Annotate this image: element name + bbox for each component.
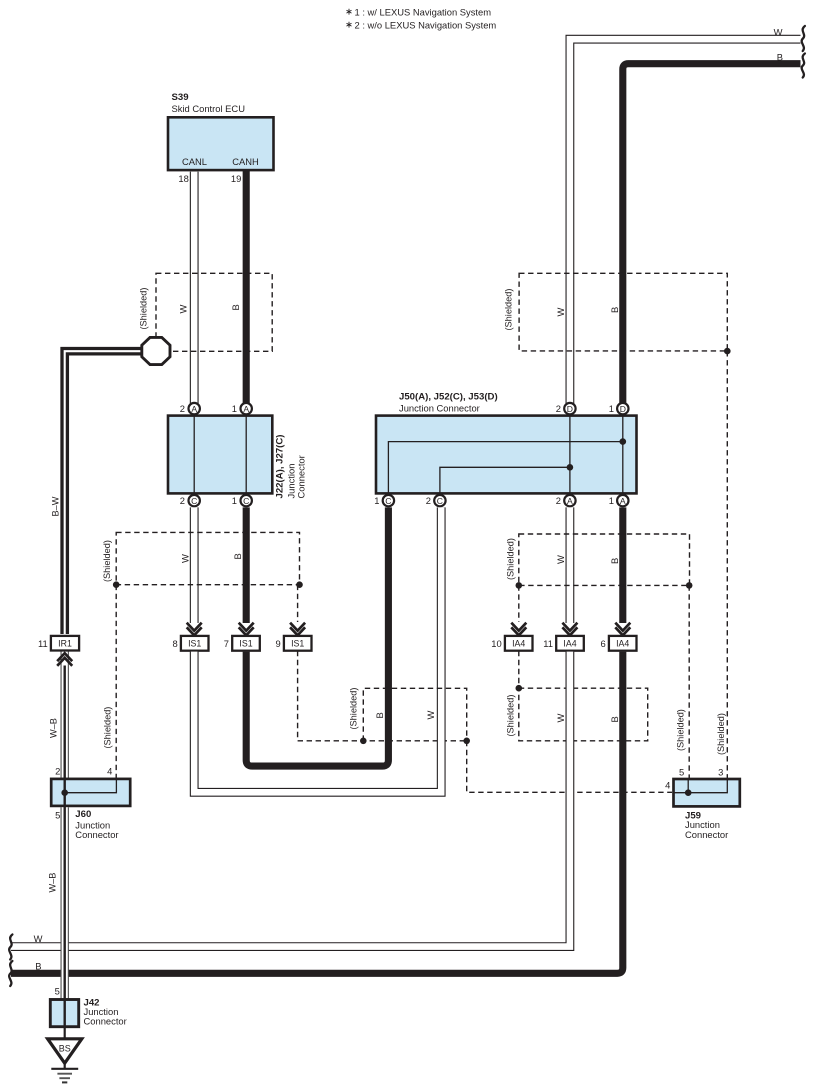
svg-text:4: 4 (665, 780, 670, 791)
label (Shielded) bottom-middle (348, 688, 358, 730)
svg-text:J60: J60 (75, 809, 91, 820)
svg-text:Connector: Connector (75, 829, 118, 840)
J42 pin 5 label (55, 986, 60, 997)
svg-text:1: 1 (374, 495, 379, 506)
label B top-left shield (230, 304, 241, 310)
ground triangle BS (48, 1039, 82, 1063)
J50 pin 2D (556, 403, 576, 414)
svg-text:2: 2 (426, 495, 431, 506)
J59 pin 5 label (679, 767, 684, 778)
svg-text:2: 2 (180, 403, 185, 414)
svg-text:(Shielded): (Shielded) (506, 695, 516, 737)
connector IS1 pin8 (172, 636, 208, 651)
svg-text:Connector: Connector (685, 829, 728, 840)
svg-text:5: 5 (55, 986, 60, 997)
label S39 (172, 92, 189, 103)
svg-text:3: 3 (718, 767, 723, 778)
junction dot left-middle left (113, 581, 120, 588)
svg-text:Skid Control ECU: Skid Control ECU (172, 103, 246, 114)
J59 internal wires (674, 779, 728, 796)
J42 internal wire (63, 1000, 65, 1027)
shield wire to IS1-9 (297, 585, 299, 622)
label W bottom-right shield (555, 714, 566, 723)
break symbol B right (802, 54, 805, 78)
svg-text:2: 2 (556, 403, 561, 414)
label (Shielded) J59 pin3 drop (716, 713, 726, 755)
svg-text:2: 2 (180, 495, 185, 506)
pin 18 label (178, 173, 188, 184)
svg-text:B–W: B–W (51, 496, 61, 516)
svg-text:IA4: IA4 (512, 639, 525, 649)
label W bottom-middle shield (425, 711, 436, 720)
label B top-right shield (609, 307, 620, 313)
svg-text:B: B (232, 553, 243, 559)
arrows into IA4-10 (511, 623, 526, 636)
wire W J50 2A to IA4-11 (566, 507, 575, 623)
svg-text:1 : w/ LEXUS Navigation System: 1 : w/ LEXUS Navigation System (355, 7, 492, 18)
svg-text:W: W (555, 555, 566, 564)
svg-text:W: W (178, 305, 189, 314)
arrows into IS1-8 (187, 623, 202, 636)
label B top-right (777, 52, 783, 63)
svg-text:1: 1 (609, 403, 614, 414)
svg-text:J50(A), J52(C), J53(D): J50(A), J52(C), J53(D) (399, 392, 498, 403)
svg-text:W: W (425, 711, 436, 720)
svg-text:B: B (374, 712, 385, 718)
svg-text:B: B (609, 716, 620, 722)
svg-text:B: B (609, 558, 620, 564)
break symbol B left (9, 961, 12, 986)
svg-text:B: B (609, 307, 620, 313)
connector IA4 pin11 (543, 636, 584, 651)
J60 internal wire to pin4 (61, 779, 116, 796)
svg-text:D: D (620, 404, 626, 414)
svg-text:IS1: IS1 (291, 639, 304, 649)
J50 internal wire 2C branch (440, 464, 573, 493)
connector IA4 pin6 (600, 636, 636, 651)
arrows into IA4-11 (562, 623, 577, 636)
junction connector J22 box (168, 416, 272, 494)
J50 pin 1D (609, 403, 629, 414)
svg-text:1: 1 (609, 495, 614, 506)
wire B top-right run (623, 64, 801, 410)
svg-text:IS1: IS1 (188, 639, 201, 649)
svg-text:W–B: W–B (48, 873, 58, 893)
J50 internal wire 1C branch (388, 438, 626, 493)
svg-text:2: 2 (55, 766, 60, 777)
ground bar 4 (62, 1081, 67, 1083)
wire B IA4-6 to left edge (11, 652, 623, 974)
label J22 Junction (285, 464, 296, 499)
label W-B lower (48, 873, 58, 893)
label J50 Junction Connector (399, 403, 480, 414)
label W bottom (34, 933, 43, 944)
svg-text:5: 5 (55, 810, 60, 821)
label J60 Connector (75, 829, 118, 840)
label J22 Connector (296, 455, 307, 498)
ground bar 2 (57, 1073, 72, 1075)
svg-text:2 : w/o LEXUS Navigation Syste: 2 : w/o LEXUS Navigation System (355, 20, 497, 31)
svg-text:11: 11 (543, 638, 553, 649)
label W left-middle shield (180, 554, 191, 563)
label J60 (75, 809, 91, 820)
svg-text:W: W (180, 554, 191, 563)
svg-text:Connector: Connector (296, 455, 307, 498)
junction dot bottom-right shield (516, 685, 523, 692)
svg-text:(Shielded): (Shielded) (102, 540, 112, 582)
J59 pin 3 label (718, 767, 723, 778)
svg-text:Connector: Connector (84, 1016, 127, 1027)
label B bottom-middle shield (374, 712, 385, 718)
connector IR1 (38, 636, 79, 651)
svg-text:(Shielded): (Shielded) (504, 289, 514, 331)
J22 internal wire left (193, 416, 195, 494)
shield wire IS1-9 to J59 pin4 (298, 651, 672, 793)
wire W CANL to J22 (190, 172, 199, 404)
label (Shielded) left-middle (102, 540, 112, 582)
svg-text:B: B (230, 304, 241, 310)
label W top-right shield (555, 308, 566, 317)
svg-text:11: 11 (38, 638, 48, 649)
svg-text:4: 4 (107, 766, 112, 777)
svg-text:6: 6 (600, 638, 605, 649)
junction dot right-middle right (686, 582, 693, 589)
svg-text:A: A (567, 496, 573, 506)
label W-B upper (49, 718, 59, 738)
J60 internal wire pin2-pin5 (63, 779, 65, 806)
J22 pin 1A (232, 403, 252, 414)
label J42 (84, 998, 100, 1009)
J50 internal wire 2D-2A (569, 416, 571, 494)
wire W top-right run (570, 39, 801, 410)
shield wire to J59 pin5 (688, 585, 690, 778)
connector IS1 pin9 (275, 636, 311, 651)
wire W IA4-11 to left edge (11, 652, 570, 947)
label (Shielded) top-left (138, 288, 148, 330)
svg-text:W: W (774, 27, 783, 38)
J22 pin 2C (180, 495, 200, 506)
svg-text:W: W (555, 308, 566, 317)
svg-text:(Shielded): (Shielded) (676, 709, 686, 751)
J22 internal wire right (245, 416, 247, 494)
svg-text:1: 1 (232, 495, 237, 506)
svg-text:S39: S39 (172, 92, 189, 103)
note w/ navigation (346, 7, 491, 18)
svg-text:IA4: IA4 (616, 639, 629, 649)
svg-text:(Shielded): (Shielded) (506, 538, 516, 580)
svg-text:1: 1 (232, 403, 237, 414)
J50 pin 2A (556, 495, 576, 506)
junction connector J42 box (50, 1000, 78, 1027)
svg-text:A: A (620, 496, 626, 506)
note w/o navigation (346, 20, 496, 31)
shield box bottom right (519, 688, 648, 741)
wire W-B J60 to J42 (60, 806, 68, 1000)
label J42 Connector (84, 1016, 127, 1027)
wire W IS1-8 to J50 2C (194, 507, 441, 792)
J50 pin 2C (426, 495, 446, 506)
label J59 Connector (685, 829, 728, 840)
shield wire to J59 pin3 (726, 351, 728, 778)
junction dot right-middle left (516, 582, 523, 589)
svg-text:A: A (191, 404, 197, 414)
svg-text:Junction Connector: Junction Connector (399, 403, 480, 414)
shield wire IA4-10 to shield box (518, 651, 520, 688)
J50 pin 1C (374, 495, 394, 506)
J60 pin 5 label (55, 810, 60, 821)
svg-text:BS: BS (59, 1044, 71, 1054)
label J59 Junction (685, 819, 720, 830)
svg-text:9: 9 (275, 638, 280, 649)
label B bottom (35, 961, 41, 972)
svg-text:C: C (191, 496, 197, 506)
junction connector J60 box (51, 779, 130, 806)
svg-text:18: 18 (178, 173, 188, 184)
shield wire to J60 pin4 (115, 585, 117, 778)
wire B J22 to IS1-7 (243, 507, 250, 623)
J22 pin 1C (232, 495, 252, 506)
label (Shielded) J59 pin5 drop (676, 709, 686, 751)
shield wire to IA4-10 (518, 585, 520, 622)
svg-text:IA4: IA4 (563, 639, 576, 649)
svg-text:C: C (243, 496, 249, 506)
svg-text:CANL: CANL (182, 156, 207, 167)
wire J42 to ground (64, 1027, 66, 1039)
ground stem (64, 1063, 66, 1069)
ground bar 1 (51, 1068, 78, 1070)
wire B CANH to J22 (243, 171, 250, 404)
label B left-middle shield (232, 553, 243, 559)
svg-text:8: 8 (172, 638, 177, 649)
pin 19 label (231, 173, 241, 184)
wire W J22 to IS1-8 (190, 507, 199, 623)
break symbol W right (802, 26, 805, 51)
svg-text:2: 2 (556, 495, 561, 506)
break symbol W left (9, 935, 12, 960)
shield box right upper (519, 273, 727, 351)
label B right-middle shield (609, 558, 620, 564)
svg-text:B: B (777, 52, 783, 63)
J60 pin 4 label (107, 766, 112, 777)
J22 pin 2A (180, 403, 200, 414)
label (Shielded) right-middle (506, 538, 516, 580)
junction connector J59 box (674, 779, 740, 806)
junction dot bottom-middle right (463, 738, 470, 745)
shield box right middle (519, 534, 690, 585)
svg-text:A: A (243, 404, 249, 414)
label J42 Junction (84, 1006, 119, 1017)
label J22(A) J27(C) (274, 435, 285, 499)
svg-text:7: 7 (224, 638, 229, 649)
label (Shielded) top-right (504, 289, 514, 331)
arrows into IA4-6 (615, 623, 630, 636)
svg-text:(Shielded): (Shielded) (138, 288, 148, 330)
connector IS1 pin7 (224, 636, 260, 651)
svg-text:(Shielded): (Shielded) (103, 707, 113, 749)
svg-text:10: 10 (491, 638, 501, 649)
arrows into IS1-7 (239, 623, 254, 636)
label W right-middle shield (555, 555, 566, 564)
wire B IS1-7 to J50 1C (246, 507, 388, 766)
shield box S39-J22 (156, 273, 272, 351)
label Skid Control ECU (172, 103, 246, 114)
svg-text:IS1: IS1 (239, 639, 252, 649)
svg-text:5: 5 (679, 767, 684, 778)
ground bar 3 (59, 1077, 70, 1079)
label (Shielded) J60 drop (103, 707, 113, 749)
label W top-right (774, 27, 783, 38)
label B-W (51, 496, 61, 516)
junction connector J50 box (376, 416, 637, 494)
wire W-B IR1 to J60 (60, 651, 68, 780)
svg-text:J22(A), J27(C): J22(A), J27(C) (274, 435, 285, 499)
label B bottom-right shield (609, 716, 620, 722)
J59 pin 4 label (665, 780, 670, 791)
svg-text:D: D (567, 404, 573, 414)
J60 pin 2 label (55, 766, 60, 777)
wire B-W octagon to IR1 (65, 351, 143, 634)
svg-text:W: W (34, 933, 43, 944)
svg-text:W–B: W–B (49, 718, 59, 738)
svg-text:W: W (555, 714, 566, 723)
label J50(A) J52(C) J53(D) (399, 392, 498, 403)
svg-text:C: C (437, 496, 443, 506)
svg-text:CANH: CANH (232, 156, 259, 167)
shield box left middle (116, 532, 299, 584)
arrows into IR1 (57, 653, 72, 666)
label (Shielded) bottom-right (506, 695, 516, 737)
junction dot top-right shield (724, 348, 731, 355)
arrows into IS1-9 (290, 623, 305, 636)
shield box bottom middle (363, 688, 466, 741)
connector IA4 pin10 (491, 636, 532, 651)
svg-text:B: B (35, 961, 41, 972)
label W top-left shield (178, 305, 189, 314)
J50 pin 1A (609, 495, 629, 506)
svg-text:C: C (385, 496, 391, 506)
svg-text:(Shielded): (Shielded) (348, 688, 358, 730)
junction dot left-middle right (296, 581, 303, 588)
junction dot bottom-middle left (360, 738, 367, 745)
shield terminal octagon (142, 337, 170, 364)
wire B J50 1A to IA4-6 (619, 507, 626, 623)
label J60 Junction (75, 819, 110, 830)
label J59 (685, 811, 701, 822)
svg-text:IR1: IR1 (58, 639, 72, 649)
J50 internal wire 1D-1A (622, 416, 624, 494)
svg-text:19: 19 (231, 173, 241, 184)
ECU S39 box (168, 117, 274, 170)
svg-text:(Shielded): (Shielded) (716, 713, 726, 755)
